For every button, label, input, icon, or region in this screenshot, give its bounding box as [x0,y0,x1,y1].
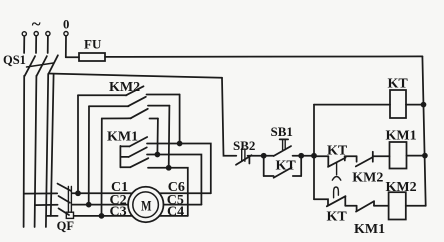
contact KM1 NC (row B) right post [373,201,375,206]
breaker QF blade 2 [59,196,70,203]
wire QF row1 left stub [24,192,57,194]
contactor KM2 pole3 right wire [150,118,158,120]
wire C5 (motor to corner) [164,204,202,206]
wire KM2 pole2 right vertical [168,106,171,168]
wire KM1 coil to right rail [407,155,425,157]
svg-text:QF: QF [57,219,75,233]
contactor KM2 pole2 right wire [148,105,169,107]
svg-text:SB1: SB1 [271,124,293,139]
pushbutton SB2 right contact tick [248,157,250,164]
wire SB1 to node B [293,155,302,157]
wire KT coil to right rail [406,104,424,106]
node A (junction dot) [262,154,266,158]
pushbutton SB2 blade [236,155,252,165]
wire node B to rail [301,155,314,157]
contactor KM1 blade 1 [130,137,148,146]
contactor KM2 pole1 blade [126,86,144,95]
switch QS1 linkage [27,63,54,67]
wire phase B vertical [35,76,37,227]
breaker QF blade 3 [59,208,70,215]
wire control feed (phase C branch to control circuit) [49,74,223,78]
wire 0 drop [65,36,67,57]
wire KT parallel branch bottom left [264,175,274,177]
relay coil KT [390,90,406,118]
switch QS1 blade 3 [48,55,58,74]
contactor KM1 common bracket [120,146,130,168]
contact KM1 NC (row B) blade [356,201,374,211]
wire node A to SB1 [264,155,274,157]
wire KM2 pole3 right vertical [156,119,159,155]
terminal L1 [22,32,26,36]
wire KT to KM1 contact (row B) [345,205,356,207]
contactor KM1 blade 2 [129,147,147,157]
wire KT parallel branch bottom right [293,175,301,177]
svg-text:KM2: KM2 [386,180,417,195]
wire KM2 contact to KM1 coil [373,155,390,157]
wire C1 (QF to motor) [72,192,132,194]
svg-text:QS1: QS1 [3,53,26,67]
motor M outer circle [128,187,163,222]
wire KM2 pole1 left vertical [77,95,79,193]
contact KM2 NC (row A) right post [372,152,374,162]
svg-text:KT: KT [327,144,348,159]
pushbutton SB1 cap [280,138,288,140]
pushbutton SB2 stem [241,149,243,162]
wire L2 stub [35,36,37,53]
wire KT to KM2 contact (row A) [344,156,346,160]
junction dot KM2 pole2 to row3 [167,166,171,170]
contact KT delayed (row A) left drop [327,156,329,166]
wire C6 (motor to corner) [160,192,211,194]
svg-text:KT: KT [276,158,297,173]
contact KT delayed (row B) delay mark [334,187,339,198]
svg-text:KM1: KM1 [386,129,417,144]
wire top rail (fuse to right) [105,55,422,58]
pushbutton SB1 blade [274,146,291,156]
terminal 0 [64,31,68,35]
contact KT delayed (row A) blade [328,158,346,167]
wire phase C vertical [46,74,48,227]
svg-text:FU: FU [84,37,102,52]
contactor coil KM1 [390,142,407,169]
terminal L3 [46,31,50,35]
svg-text:KT: KT [388,77,409,92]
switch QS1 blade 2 [37,56,47,76]
wire branch vertical to QF row 3 [51,74,54,216]
node E (junction dot) [423,154,427,158]
wire KM2 coil to right rail [406,205,426,207]
contactor KM2 pole1 right wire [147,94,180,96]
contactor KM2 pole2 left wire [89,105,129,107]
contact KM1 NC (row B) left drop [356,206,358,211]
contact KT (parallel with SB1) blade [274,168,292,178]
wire QF row3 left stub [46,215,57,217]
wire KM2 pole3 left vertical [101,119,103,216]
node D (junction dot) [422,103,426,107]
svg-text:~: ~ [32,15,41,34]
svg-text:0: 0 [63,17,69,31]
svg-text:M: M [141,199,152,215]
node B (junction dot) [299,154,303,158]
junction dot KM2 pole3 to C3 [100,214,104,218]
node C (junction dot, control bus) [312,154,316,158]
wire C3 (QF to motor) [74,215,132,217]
wire KM2 pole1 right vertical [179,95,181,144]
contactor coil KM2 [389,192,406,219]
wire KM1 row2 to C5 [147,155,201,205]
wire KM1 row3 to C4 [148,168,188,216]
fuse FU body [79,53,105,61]
wire L3 stub [47,36,49,53]
junction dot KM2 pole1 to row1 [178,142,182,146]
terminal L2 [34,31,38,35]
svg-text:C3: C3 [110,205,127,220]
contact KT delayed (row B) right post [344,196,346,206]
contact KM2 NC (row A) left drop [356,156,358,162]
svg-text:KT: KT [327,209,348,224]
wire KT coil row [314,104,390,106]
wire row B from bus [314,199,328,205]
wire C4 (motor to corner) [160,215,188,217]
wire 0 to fuse [66,56,79,58]
switch QS1 blade 1 [25,56,35,76]
breaker QF linkage bar [67,187,69,213]
contactor KM2 pole1 left wire [78,94,127,96]
wire C2 (QF to motor) [72,204,128,206]
wire control bus (left rail) [313,105,315,200]
svg-text:KM1: KM1 [107,129,138,144]
breaker QF linkage foot [66,212,73,218]
svg-text:KM2: KM2 [352,171,383,186]
wire row A from bus [314,155,328,157]
wire QF row2 left stub [35,204,58,206]
wire L1 stub [23,36,25,53]
contact KT delayed (row B) blade [327,196,346,206]
svg-text:KM1: KM1 [354,222,385,237]
wire phase A vertical [23,76,26,227]
contactor KM2 pole3 blade [131,109,148,119]
breaker QF blade 1 [58,184,71,191]
contact KT delayed (row A) delay mark cup [332,177,341,181]
wire KM1 contact to KM2 coil [374,205,389,207]
wire KT parallel branch right drop [300,156,302,176]
wire KM2 pole2 left vertical [88,106,90,204]
junction dot KM2 pole2 to C2 [87,203,91,207]
junction dot KM2 pole3 to row2 [155,153,159,157]
contactor KM2 pole3 left wire [102,117,131,119]
wire KM1 row1 to C6 [147,144,211,194]
wire SB2 to node A [248,155,264,157]
wire right rail [422,56,425,205]
contactor KM2 pole2 blade [128,97,146,106]
wire KT parallel branch left drop [263,156,265,176]
motor M inner circle [133,192,159,218]
contact KM2 NC (row A) blade [356,157,373,166]
svg-text:SB2: SB2 [233,138,255,153]
svg-text:KM2: KM2 [109,80,140,95]
svg-text:C4: C4 [167,205,184,220]
contactor KM1 blade 3 [130,158,148,167]
contact KT delayed (row A) delay mark stem [336,163,338,175]
wire control drop to SB2 [222,78,236,156]
junction dot KM2 pole1 to C1 [76,191,80,195]
